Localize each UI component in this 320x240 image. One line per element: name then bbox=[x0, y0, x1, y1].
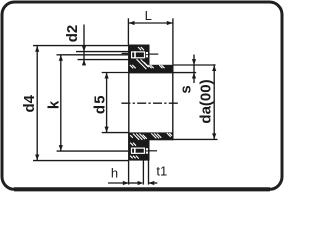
hub left face line bbox=[128, 45, 130, 161]
part section: top hub block bbox=[128, 45, 149, 74]
dimension k bbox=[57, 55, 129, 151]
bottom screw axis stub bbox=[150, 150, 158, 151]
part face edge lines bbox=[129, 45, 173, 161]
dimension d2 bbox=[76, 25, 128, 66]
top screw axis stub bbox=[150, 54, 159, 55]
part section: bottom disc block bbox=[150, 132, 174, 140]
svg-text:s: s bbox=[177, 85, 194, 93]
part section: bottom hub block bbox=[128, 132, 149, 160]
center line (axis) bbox=[121, 102, 178, 104]
part section: top disc block bbox=[150, 65, 174, 74]
hatching strokes, bottom section bbox=[130, 133, 172, 159]
svg-text:d5: d5 bbox=[92, 94, 109, 114]
svg-text:d4: d4 bbox=[21, 94, 38, 112]
svg-text:da(00): da(00) bbox=[197, 79, 214, 123]
dimension d5 bbox=[102, 73, 129, 133]
dimension da(00) bbox=[173, 64, 217, 139]
svg-text:k: k bbox=[45, 100, 62, 109]
top set screw (white outline in black) bbox=[131, 51, 148, 58]
svg-text:t1: t1 bbox=[156, 164, 167, 179]
dimensions h and t1 bbox=[108, 156, 157, 185]
dimension d4 bbox=[33, 46, 128, 161]
bottom set screw (white outline in black) bbox=[131, 148, 148, 154]
dimension s bbox=[173, 55, 215, 84]
svg-text:d2: d2 bbox=[64, 25, 81, 43]
disc right face line bbox=[172, 65, 174, 141]
svg-text:L: L bbox=[145, 8, 152, 23]
dimension L bbox=[128, 18, 173, 65]
hatching strokes (white on black), top section bbox=[130, 47, 165, 69]
page border frame bbox=[2, 2, 282, 189]
svg-text:h: h bbox=[111, 165, 118, 180]
